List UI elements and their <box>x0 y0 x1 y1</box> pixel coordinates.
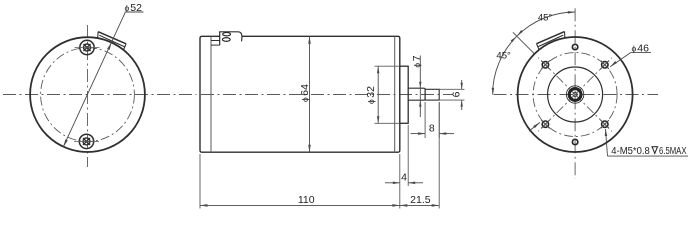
side view: dia32 dimension line <box>377 66 379 123</box>
left view: motor body outer circle <box>30 37 145 152</box>
right view: dia46 dimension leader upper-right <box>610 53 630 67</box>
side view: dim 8 extension lines <box>424 102 426 138</box>
side view: dim 4 line and arrows <box>385 182 400 184</box>
right view: shaft circles <box>566 86 583 103</box>
svg-text:8: 8 <box>429 123 435 135</box>
side view: dim 21.5 extension line right <box>438 102 440 209</box>
left view: vertical centerline <box>87 25 89 167</box>
right view: 45deg radial extended <box>513 32 535 54</box>
side view: motor body outline <box>200 36 400 152</box>
side view: dim 110 extension line left <box>199 154 201 209</box>
side view: terminal lug top <box>223 33 231 36</box>
right view: 45deg arc dimension left <box>493 36 517 94</box>
left view: screw top tick <box>75 47 100 49</box>
right view: 4-M5 leader <box>606 129 608 156</box>
svg-text:6: 6 <box>450 91 462 97</box>
left view: screw bottom <box>79 134 93 148</box>
right view: diagonal centerlines <box>575 58 612 95</box>
svg-text:45°: 45° <box>496 51 511 62</box>
side view: terminal cover <box>220 32 242 45</box>
side view: dia32 dimension extension lines <box>375 65 400 67</box>
svg-text:110: 110 <box>298 194 315 206</box>
left view: dia52 label underline <box>125 11 144 13</box>
svg-text:4: 4 <box>401 171 407 183</box>
side view: dim 110 line <box>200 204 400 206</box>
right view: vertical centerline <box>574 8 576 179</box>
side view: horizontal centerline <box>201 94 453 96</box>
side view: output boss dia32 <box>400 66 408 123</box>
svg-text:ϕ52: ϕ52 <box>125 2 143 14</box>
side view: dia64 dimension <box>309 36 311 152</box>
side view: brush ladder detail <box>211 40 220 42</box>
side view: shaft dia7 section <box>408 88 425 100</box>
right view: motor body outer circle <box>518 37 633 152</box>
side view: terminal lug bottom <box>222 38 230 42</box>
side view: dim 8 line and arrows <box>411 133 426 135</box>
svg-text:6.5MAX: 6.5MAX <box>659 146 687 157</box>
svg-text:ϕ46: ϕ46 <box>632 42 650 54</box>
side view: right end cap seam <box>394 36 396 152</box>
left view: dia 52 dimension line <box>63 13 125 147</box>
left view: terminal cover tab <box>98 32 126 44</box>
svg-text:ϕ64: ϕ64 <box>299 84 311 102</box>
right view: bolt circle dia46 <box>533 53 617 137</box>
side view: dim 21.5 line <box>400 204 439 206</box>
side view: left end cap seam <box>210 36 212 152</box>
svg-text:ϕ32: ϕ32 <box>365 86 377 104</box>
side view: dia6 dimension line <box>461 80 463 89</box>
right view: through hole bottom <box>572 139 577 144</box>
right view: 45deg arc dimension top <box>517 12 575 36</box>
svg-text:4-M5*0.8: 4-M5*0.8 <box>611 146 650 157</box>
left view: screw top <box>80 40 94 54</box>
right view: boss circle <box>548 67 603 122</box>
svg-text:45°: 45° <box>538 13 553 24</box>
left view: horizontal centerline <box>3 94 197 96</box>
right view: dia46 dimension leader lower-left <box>529 122 540 131</box>
right view: 4-M5 label underline <box>608 155 689 157</box>
side view: dim 4 extension lines <box>399 154 401 209</box>
side view: dia7 dimension <box>419 56 421 118</box>
right view: M5 tapped holes <box>602 62 608 68</box>
right view: horizontal centerline <box>494 94 659 96</box>
side view: shaft dia6 section <box>425 89 439 100</box>
right view: terminal cover tab (top-left) <box>537 32 565 44</box>
svg-text:21.5: 21.5 <box>410 194 431 206</box>
left view: screw bottom tick <box>74 140 99 142</box>
svg-text:ϕ7: ϕ7 <box>411 55 423 67</box>
left view: bolt circle dia 52 (dash-dot) <box>41 48 135 142</box>
right view: through hole top <box>572 44 577 49</box>
side view: dia6 dimension extension lines <box>439 88 464 90</box>
